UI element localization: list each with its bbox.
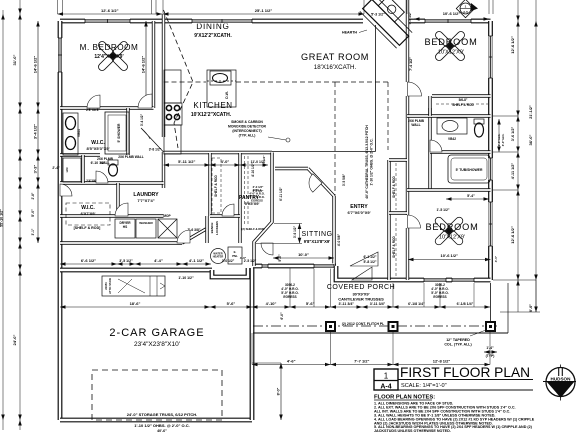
line: hall/great room boundary — [272, 151, 376, 153]
svg-text:5'-8 1/2": 5'-8 1/2" — [364, 260, 377, 264]
dim 6'-1/8 a — [393, 306, 440, 308]
dim hall 5'-11 1/2 — [164, 164, 211, 166]
wall: closet jog — [428, 96, 431, 116]
svg-text:4'-10": 4'-10" — [266, 301, 277, 306]
wall: m.bath mid — [60, 153, 100, 156]
svg-text:10'X12'2"XCATH.: 10'X12'2"XCATH. — [191, 112, 232, 118]
dim 3'-3 — [37, 155, 39, 183]
svg-text:HEATER: HEATER — [213, 255, 224, 259]
svg-text:23'4"X23'8"X10': 23'4"X23'8"X10' — [134, 341, 180, 348]
svg-text:COVERED PORCH: COVERED PORCH — [327, 284, 395, 291]
dim: 12'-6 1/2 top — [58, 13, 163, 15]
svg-text:1'-10 1/2" OHBS. @ 2'-0" O.C.: 1'-10 1/2" OHBS. @ 2'-0" O.C. — [134, 423, 189, 428]
svg-text:24'-0" STORAGE TRUSS, 6/12 PIT: 24'-0" STORAGE TRUSS, 6/12 PITCH. — [127, 412, 198, 417]
dim line x=499 bath — [498, 119, 500, 152]
svg-text:2'-8": 2'-8" — [31, 192, 35, 199]
svg-text:HS: HS — [123, 225, 127, 229]
wall: bath mid (tub north) — [430, 150, 491, 153]
window: bedroom2 south a — [424, 277, 446, 282]
svg-text:SHELF & ROD: SHELF & ROD — [452, 103, 474, 107]
dim 4'-4 — [135, 263, 182, 265]
svg-text:55'-10 1/2": 55'-10 1/2" — [0, 209, 4, 227]
svg-text:24'-0": 24'-0" — [12, 334, 17, 345]
wall: laundry west — [116, 183, 119, 216]
svg-text:3'-4 1/2": 3'-4 1/2" — [140, 113, 144, 126]
svg-text:2'-0 1/2": 2'-0 1/2" — [222, 259, 235, 263]
wall: shower west — [126, 108, 129, 155]
dim 1'-4" typ — [484, 351, 497, 353]
svg-text:HUDSON: HUDSON — [551, 376, 572, 381]
window: bedroom2 east — [488, 202, 493, 246]
wall: closet west (hall+bedroom2) — [387, 160, 390, 280]
m.bath shower — [105, 112, 129, 154]
svg-text:BENCH: BENCH — [210, 223, 214, 234]
svg-text:SHELF & ROD: SHELF & ROD — [392, 176, 396, 198]
door: m.bedroom — [138, 94, 152, 108]
electrical panel — [228, 247, 242, 264]
svg-text:HEARTH: HEARTH — [342, 31, 357, 35]
section marker A-5 — [456, 0, 474, 18]
svg-text:(2) SHELF & ROD: (2) SHELF & ROD — [241, 227, 264, 231]
svg-text:2'-0 1/2": 2'-0 1/2" — [262, 155, 266, 167]
svg-text:8'-0": 8'-0" — [277, 387, 281, 395]
dashed: great room ceiling v1 — [334, 82, 336, 196]
wall: closet top — [389, 158, 407, 161]
entry gable mark — [350, 252, 378, 266]
dim 6'-1/8 b — [440, 306, 490, 308]
svg-text:SITTING: SITTING — [301, 231, 332, 238]
svg-text:31'-0": 31'-0" — [12, 54, 17, 65]
wall: bath west — [428, 108, 431, 190]
svg-text:6'-10 1/2": 6'-10 1/2" — [91, 161, 106, 165]
svg-text:4'-0": 4'-0" — [221, 159, 230, 164]
svg-text:LOCKERS: LOCKERS — [215, 221, 219, 235]
tub/shower — [448, 155, 490, 183]
dim 6'-6 1/2 — [60, 263, 117, 265]
logo: HUDSON compass — [543, 365, 576, 401]
svg-text:8'5"X5'3"X9': 8'5"X5'3"X9' — [86, 146, 109, 151]
wall: garage south — [60, 418, 252, 423]
svg-text:7'-4 1/2": 7'-4 1/2" — [409, 57, 413, 71]
svg-text:SHELF & ROD: SHELF & ROD — [392, 236, 396, 258]
svg-text:2'-4": 2'-4" — [52, 166, 60, 170]
dim 4'-10 porch — [252, 306, 290, 308]
svg-text:(2) 2X12 CONT. FLITCH PL: (2) 2X12 CONT. FLITCH PL — [342, 322, 384, 326]
svg-text:12'-8 1/2": 12'-8 1/2" — [433, 359, 451, 364]
ext line top left — [57, 0, 59, 14]
svg-text:3'-0" H.O.: 3'-0" H.O. — [501, 133, 505, 146]
svg-text:5'-6": 5'-6" — [306, 301, 315, 306]
svg-text:SCALE: 1/4"=1'-0": SCALE: 1/4"=1'-0" — [401, 383, 447, 389]
title block ref box — [374, 369, 398, 390]
svg-text:5'-5 1/2": 5'-5 1/2" — [408, 11, 412, 24]
svg-text:12'-6 1/2": 12'-6 1/2" — [510, 226, 515, 244]
svg-text:7'-7 1/2": 7'-7 1/2" — [354, 359, 369, 364]
dim 7'-7 1/2 bottom — [331, 364, 394, 366]
svg-text:3'-6 1/2": 3'-6 1/2" — [293, 225, 297, 238]
svg-text:PNL: PNL — [232, 254, 238, 258]
door: bedroom1 — [408, 82, 422, 96]
svg-text:8'-0": 8'-0" — [529, 304, 533, 312]
svg-text:12'-6 1/2": 12'-6 1/2" — [510, 36, 515, 54]
svg-text:4'-10 1/2": 4'-10 1/2" — [251, 163, 255, 177]
pantry shelves dashed — [244, 156, 246, 226]
m.bath vanity with two sinks — [63, 113, 78, 155]
linen closet — [63, 158, 81, 182]
dim line far left — [2, 10, 4, 430]
svg-text:5'-0": 5'-0" — [31, 209, 35, 217]
dim 14'-6 1/2 inner — [145, 21, 147, 108]
dim line right 1 — [517, 0, 519, 312]
svg-text:5'-4": 5'-4" — [467, 194, 475, 198]
svg-text:14'-6 1/2": 14'-6 1/2" — [33, 56, 38, 74]
porch slab edge — [253, 332, 508, 334]
svg-text:6'-0": 6'-0" — [280, 312, 284, 320]
dim 8'-0 garage side — [252, 362, 281, 364]
door: sitting french — [309, 174, 322, 192]
door: m.bath — [87, 95, 100, 108]
svg-text:36'-0": 36'-0" — [528, 134, 533, 145]
window: m.bedroom north — [85, 18, 130, 23]
svg-text:10'-6 1/2": 10'-6 1/2" — [443, 11, 461, 16]
wall: sitting east — [332, 196, 335, 266]
wall: hall lower — [406, 228, 409, 280]
svg-text:1: 1 — [384, 372, 389, 381]
wall: right exterior — [488, 21, 493, 280]
door: bedroom2 — [408, 215, 421, 228]
svg-text:3'-3": 3'-3" — [33, 165, 38, 174]
wall: bath south / bedroom2 north — [407, 188, 491, 191]
wall: sitting north — [275, 167, 308, 170]
door: pantry — [222, 204, 234, 216]
svg-text:COL. (TYP. ALL): COL. (TYP. ALL) — [444, 343, 472, 347]
dashed: great room ceiling v2 — [387, 82, 389, 150]
svg-text:25'-1 1/2": 25'-1 1/2" — [255, 8, 273, 13]
svg-text:18'X16'XCATH.: 18'X16'XCATH. — [314, 64, 357, 71]
svg-text:7'7"X7'4": 7'7"X7'4" — [137, 198, 154, 203]
dim hall right — [240, 164, 268, 166]
dim hall 4'-0 — [210, 164, 240, 166]
svg-text:D.W.: D.W. — [225, 91, 229, 98]
svg-text:4'-11 1/2": 4'-11 1/2" — [511, 163, 515, 180]
svg-text:5'-0": 5'-0" — [278, 254, 282, 262]
window: bedroom1 north — [425, 18, 471, 23]
dim 5'-6 garage — [210, 306, 252, 308]
wall: top exterior (bedroom/dining/great room) — [60, 19, 363, 24]
svg-text:LIN: LIN — [65, 168, 69, 173]
attic stair box — [102, 276, 165, 296]
svg-text:3'-1": 3'-1" — [31, 228, 35, 235]
svg-text:3'-5 5/8": 3'-5 5/8" — [342, 173, 346, 186]
dim: 10'-6 1/2 top right — [414, 18, 489, 20]
wall: sitting west (kinked) — [254, 153, 272, 267]
svg-text:WALL: WALL — [411, 123, 420, 127]
svg-text:CANTILEVER TRUSSES: CANTILEVER TRUSSES — [338, 297, 384, 302]
svg-text:6'-6 1/2": 6'-6 1/2" — [81, 258, 96, 263]
svg-text:A-4: A-4 — [380, 384, 391, 391]
door: rear hall — [261, 243, 273, 255]
wall: pantry south — [210, 214, 240, 217]
svg-text:2-CAR GARAGE: 2-CAR GARAGE — [109, 327, 204, 339]
wall: pantry east — [238, 153, 241, 243]
dim 12'-8 1/2 bottom — [393, 364, 490, 366]
svg-text:3'-11 3/4": 3'-11 3/4" — [370, 302, 386, 306]
svg-text:4'-0 5/8": 4'-0 5/8" — [337, 233, 341, 246]
wall: hall north (kitchen south) — [164, 151, 273, 154]
svg-text:1'-10 1/2" OHBS. @ 2'-0" O.C.: 1'-10 1/2" OHBS. @ 2'-0" O.C. — [370, 138, 374, 185]
dim 4'-6 bottom — [252, 364, 331, 366]
svg-text:40'-6" CATHEDRAL TRUSS, 6/12-3: 40'-6" CATHEDRAL TRUSS, 6/12-3.5/12 PITC… — [365, 125, 369, 199]
svg-text:GREAT ROOM: GREAT ROOM — [301, 52, 369, 62]
dashed: cathedral break dining/kitchen — [164, 81, 207, 83]
svg-text:14'-6 1/2": 14'-6 1/2" — [141, 56, 146, 74]
porch roof dash-dot line — [253, 325, 500, 327]
svg-text:M. BEDROOM: M. BEDROOM — [80, 43, 139, 52]
door: laundry — [115, 203, 128, 216]
svg-text:6'-1/8 1/4": 6'-1/8 1/4" — [457, 302, 474, 306]
svg-text:5'-3 1/2": 5'-3 1/2" — [371, 13, 385, 17]
window: sitting south b — [314, 263, 334, 268]
svg-text:5' SHOWER: 5' SHOWER — [117, 123, 121, 142]
water heater — [211, 249, 226, 264]
svg-text:22X54: 22X54 — [104, 282, 108, 290]
svg-text:VB42: VB42 — [448, 137, 456, 141]
wall: m.bedroom east — [152, 21, 155, 108]
dim 3'-4 1/2 — [37, 108, 39, 155]
svg-text:6'-11 1/2": 6'-11 1/2" — [279, 187, 283, 201]
svg-text:KITCHEN: KITCHEN — [193, 101, 232, 110]
svg-text:EGRESS: EGRESS — [251, 199, 263, 203]
wall: linen east — [81, 155, 84, 183]
hall bath vanity — [437, 118, 467, 134]
dim 3'-11 3/4 b — [362, 306, 393, 308]
m.bath toilet — [108, 160, 118, 176]
wall: mud hall south — [60, 241, 182, 244]
hall bath toilet — [474, 119, 484, 137]
svg-text:21'-1/2": 21'-1/2" — [529, 105, 533, 119]
wall: closet divider — [389, 211, 407, 214]
wall: m.bedroom south — [60, 106, 154, 109]
svg-text:5'-11 1/2": 5'-11 1/2" — [178, 159, 195, 164]
porch post 1 — [325, 321, 336, 332]
svg-text:[SHELF & ROD]: [SHELF & ROD] — [74, 226, 101, 230]
wall: angled garage entry — [182, 229, 206, 243]
line: fireplace nook wall — [375, 25, 377, 152]
svg-text:18'-6": 18'-6" — [130, 301, 141, 306]
dim 10'-6 1/2 bedroom2 — [408, 259, 491, 261]
porch slab east edge — [507, 283, 509, 333]
porch post 2 — [388, 321, 399, 332]
wall: bath north / bedroom1 closet — [407, 114, 491, 117]
window: dining north — [192, 18, 252, 23]
door: toilet room — [96, 171, 108, 183]
svg-text:9'X12'2"XCATH.: 9'X12'2"XCATH. — [194, 33, 232, 39]
dim 4'-1 1/2 — [182, 263, 211, 265]
svg-text:5'-6": 5'-6" — [227, 301, 236, 306]
washer dryer mop — [115, 219, 177, 238]
svg-text:3'-11 3/4": 3'-11 3/4" — [338, 302, 354, 306]
svg-text:FIRST FLOOR PLAN: FIRST FLOOR PLAN — [400, 364, 530, 380]
wall: laundry south — [60, 214, 164, 217]
bench/lockers — [205, 216, 208, 243]
svg-text:6'-1/8 1/4": 6'-1/8 1/4" — [408, 302, 425, 306]
left dim ticks/arrows — [18, 14, 22, 20]
svg-text:2'8"X6'8": 2'8"X6'8" — [86, 108, 100, 112]
wall: garage north partial — [60, 268, 212, 273]
svg-text:4'-1 1/2": 4'-1 1/2" — [189, 258, 204, 263]
dashed: garage storage truss area — [92, 370, 222, 420]
dim 3'-11 3/4 a — [331, 306, 363, 308]
svg-text:12'-6 1/2": 12'-6 1/2" — [101, 8, 119, 13]
svg-text:10'-6 1/2": 10'-6 1/2" — [440, 253, 458, 258]
dim 5'-6 porch — [290, 306, 331, 308]
door leaf: m.bath from hall — [141, 128, 164, 152]
dim 18'-6 — [60, 306, 210, 308]
dim: 25'-1 1/2 top — [163, 13, 364, 15]
svg-text:4'-6": 4'-6" — [287, 359, 296, 364]
ext line kink bottom — [256, 242, 302, 244]
dim left small — [37, 183, 39, 243]
ceiling fan: m.bedroom — [97, 40, 129, 72]
wall: closet/pantry west — [208, 153, 211, 216]
right lower dim 8'-0 — [535, 280, 537, 312]
window: bath east — [488, 158, 493, 180]
dashed: dining/kitchen cathedral ridge — [164, 10, 194, 148]
svg-text:(TYP. ALL): (TYP. ALL) — [239, 134, 256, 138]
svg-text:12" TAPERED: 12" TAPERED — [446, 338, 470, 342]
svg-text:3'-6 1/2": 3'-6 1/2" — [511, 127, 515, 142]
dim line right 2 — [535, 0, 537, 312]
wall: kitchen west lower — [162, 152, 165, 188]
dim 10'-0 sitting — [273, 257, 334, 259]
svg-text:9'8"X13'8"X9': 9'8"X13'8"X9' — [304, 239, 331, 244]
wall: garage east — [250, 268, 255, 420]
svg-text:6'X7'X9': 6'X7'X9' — [81, 211, 96, 216]
svg-text:2X6 PLMB WALL: 2X6 PLMB WALL — [118, 155, 144, 159]
window: bedroom1 east — [488, 36, 493, 78]
svg-text:(INTERCONNECT): (INTERCONNECT) — [232, 129, 261, 133]
wall: sitting angled — [308, 169, 334, 197]
svg-text:5' TUB/SHOWER: 5' TUB/SHOWER — [456, 168, 483, 172]
fireplace assembly (rotated 45deg at top wall) — [360, 0, 419, 48]
svg-text:4'-0": 4'-0" — [494, 255, 498, 262]
door: wic2 — [60, 184, 72, 196]
wall: sitting south — [253, 264, 336, 269]
svg-text:ATTIC STAIR: ATTIC STAIR — [108, 278, 112, 294]
svg-text:3'-4 1/2": 3'-4 1/2" — [33, 124, 38, 139]
wall: top exterior (right bedroom) — [407, 19, 491, 24]
wall: water-heater niche — [212, 268, 248, 277]
wall: bedroom1 closet shelf — [432, 94, 491, 97]
porch extension lines — [490, 283, 492, 321]
dim line left 2 — [19, 0, 21, 430]
door: hall bath — [430, 140, 442, 152]
svg-text:A-5: A-5 — [463, 10, 468, 14]
window: sitting south a — [262, 263, 268, 268]
wall: hall mid — [406, 96, 409, 215]
wall: great room east / hall upper — [406, 0, 409, 82]
dim 14'-6 1/2 left — [37, 21, 39, 108]
ceiling fan: bedroom1 — [434, 30, 466, 62]
wall: bedroom2 south — [408, 278, 491, 283]
svg-text:MONOXIDE DETECTOR: MONOXIDE DETECTOR — [228, 125, 267, 129]
svg-text:4'-4": 4'-4" — [154, 258, 163, 263]
svg-text:1'-10 1/2": 1'-10 1/2" — [178, 276, 194, 280]
svg-text:10'-0": 10'-0" — [298, 252, 309, 257]
entry door triangles — [352, 267, 372, 280]
svg-text:1'-5 1/2": 1'-5 1/2" — [437, 208, 450, 212]
window: bedroom2 south b — [452, 277, 474, 282]
window: m.bedroom west — [57, 38, 62, 72]
wic2 dashed — [66, 203, 110, 225]
svg-text:3'-5 1/2": 3'-5 1/2" — [119, 259, 133, 263]
wall: left exterior — [58, 21, 63, 420]
svg-text:5/6-8": 5/6-8" — [459, 98, 468, 102]
porch post 3 — [485, 321, 496, 332]
wall: kitchen/dining west upper — [162, 14, 165, 137]
ext line kink top — [274, 223, 302, 225]
wall: entry recess — [336, 266, 408, 280]
svg-text:SHELF & ROD: SHELF & ROD — [214, 175, 218, 197]
kitchen counters/range — [164, 70, 236, 154]
svg-text:6'7"X6'0"X9': 6'7"X6'0"X9' — [347, 210, 370, 215]
svg-text:2'-5 1/2": 2'-5 1/2" — [244, 259, 257, 263]
svg-text:MOP: MOP — [163, 214, 171, 218]
svg-text:SMOKE & CARBON: SMOKE & CARBON — [231, 120, 263, 124]
svg-text:3'-8 1/2": 3'-8 1/2" — [149, 148, 162, 152]
ceiling fan: bedroom2 — [434, 216, 465, 247]
svg-text:VB60: VB60 — [77, 129, 81, 137]
svg-text:WASHER: WASHER — [139, 221, 153, 225]
door: garage entry — [177, 230, 190, 243]
wall: wic/laundry north — [60, 181, 164, 184]
